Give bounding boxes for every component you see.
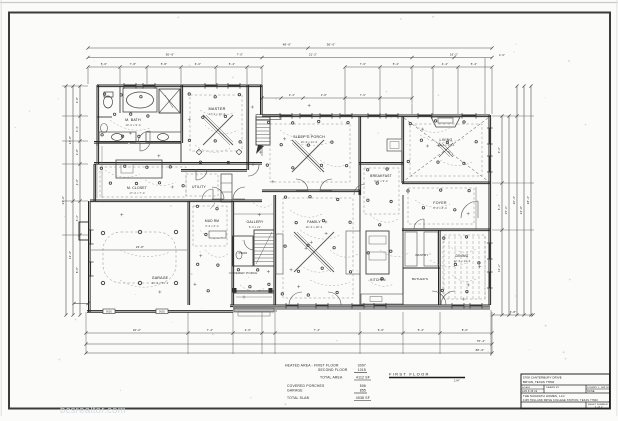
svg-text:48’-6”: 48’-6” [283, 43, 292, 47]
garage door labels [103, 309, 168, 314]
bottom dimension extension drops [86, 312, 492, 354]
svg-text:bcsrealtor.com: bcsrealtor.com [60, 405, 126, 416]
gallery arch openings [233, 214, 274, 236]
svg-text:FAMILY: FAMILY [307, 220, 321, 224]
exterior wall: right side [489, 115, 491, 305]
svg-text:30’-4”: 30’-4” [512, 196, 516, 204]
bottom dimension line tier 3 [84, 348, 493, 355]
svg-text:5’-4”: 5’-4” [229, 62, 236, 66]
svg-text:SLEEP’G PORCH: SLEEP’G PORCH [293, 135, 325, 139]
room label FAMILY [306, 220, 323, 229]
svg-text:10’-2”: 10’-2” [497, 264, 501, 272]
svg-text:PANTRY: PANTRY [415, 253, 428, 257]
ceiling trim dashed: garage loop [103, 232, 176, 283]
svg-text:3’-4”: 3’-4” [289, 93, 295, 97]
interior wall: master east [247, 85, 249, 170]
scan paper right edge [616, 0, 618, 416]
svg-text:KITCHEN: KITCHEN [370, 278, 386, 282]
room label FOYER [433, 201, 447, 210]
svg-text:GARAGE: GARAGE [287, 389, 303, 393]
svg-text:5’-8”: 5’-8” [161, 62, 168, 66]
interior wall: suite south / garage top [90, 200, 262, 202]
svg-text:6’-0 x 21’: 6’-0 x 21’ [249, 226, 261, 229]
exterior wall: bottom main [230, 305, 490, 307]
svg-text:16’-2”: 16’-2” [450, 53, 458, 57]
svg-text:1105 HOLLAND DRIVE COLLEGE STA: 1105 HOLLAND DRIVE COLLEGE STATION, TEXA… [523, 399, 598, 402]
svg-text:38’-0”: 38’-0” [327, 43, 336, 47]
svg-text:14’-8”: 14’-8” [68, 136, 72, 144]
svg-text:6’-0 x 6’-0: 6’-0 x 6’-0 [205, 225, 219, 228]
bcsrealtor.com watermark [60, 405, 126, 416]
room label GARAGE [152, 276, 169, 285]
svg-text:6’-8”: 6’-8” [510, 310, 517, 314]
closet shelving lines [97, 146, 102, 198]
svg-text:32’-8”: 32’-8” [519, 206, 523, 214]
svg-text:7’-0”: 7’-0” [360, 93, 366, 97]
master ceiling fan X [203, 115, 233, 145]
svg-text:TOTAL SLAB: TOTAL SLAB [287, 396, 310, 400]
room label GALLERY [247, 220, 265, 229]
svg-text:5’-4”: 5’-4” [418, 328, 425, 332]
room label KITCHEN [370, 278, 386, 282]
svg-text:13’-4”: 13’-4” [68, 251, 72, 259]
interior wall: dining west [439, 230, 441, 305]
room label DINING [454, 254, 471, 263]
interior wall: sleeping porch south / family top [262, 190, 360, 192]
room label SLEEPG PORCH [293, 135, 325, 144]
svg-text:7’-4”: 7’-4” [207, 328, 214, 332]
svg-text:DINING: DINING [455, 254, 468, 258]
living room ceiling diagonals [404, 118, 488, 181]
garage light dots [101, 230, 177, 284]
ceiling trim dashed: master [190, 95, 242, 151]
svg-text:4538 SF: 4538 SF [356, 396, 370, 400]
svg-text:BREAKFAST: BREAKFAST [370, 174, 392, 178]
svg-text:THE McGRATH HOMES, LLC: THE McGRATH HOMES, LLC [523, 394, 565, 398]
svg-text:PWDR: PWDR [239, 251, 248, 255]
svg-text:2’-8”: 2’-8” [75, 149, 79, 155]
butler counter [405, 232, 438, 266]
interior wall: garage east [188, 201, 190, 305]
svg-text:HEATED AREA - FIRST FLOOR: HEATED AREA - FIRST FLOOR [285, 364, 339, 368]
svg-text:‘COVERED’ PORCH: ‘COVERED’ PORCH [229, 271, 258, 275]
kitchen island [366, 231, 389, 274]
svg-text:BRYAN, TEXAS 77802: BRYAN, TEXAS 77802 [523, 380, 555, 384]
breakfast bar niche [387, 139, 402, 151]
bottom dimension line tier 2 [84, 339, 493, 346]
svg-text:3097: 3097 [358, 364, 366, 368]
room label BREAKFAST [370, 174, 392, 183]
svg-text:BUTLER’S: BUTLER’S [412, 277, 428, 281]
exterior wall: left master bath [97, 85, 99, 164]
room label COVERED PORCH [229, 271, 258, 275]
svg-text:1 of 2: 1 of 2 [595, 405, 603, 409]
svg-text:MASTER: MASTER [208, 107, 225, 111]
ceiling trim dashed: dining [444, 235, 485, 299]
svg-text:506: 506 [360, 384, 366, 388]
area schedule text block [285, 364, 371, 401]
title block [521, 374, 610, 409]
svg-text:8’-6”: 8’-6” [75, 267, 79, 273]
interior wall: closet/utility top [94, 163, 262, 165]
svg-text:7’-0”: 7’-0” [360, 62, 367, 66]
svg-text:TOTAL AREA: TOTAL AREA [320, 376, 343, 380]
svg-text:4’-2”: 4’-2” [75, 215, 79, 221]
left dimension lines [61, 84, 90, 316]
svg-text:M. CLOSET: M. CLOSET [127, 186, 147, 190]
ceiling trim dashed: sleeping porch [270, 124, 350, 182]
interior wall: powder room box [233, 236, 253, 266]
interior wall: family east / kitchen west [359, 190, 361, 305]
interior wall: master west [181, 85, 183, 162]
ceiling trim dashed: utility [186, 174, 218, 196]
room label M BATH [125, 118, 141, 127]
svg-text:6’-6”: 6’-6” [378, 328, 385, 332]
svg-text:7’-4”: 7’-4” [314, 328, 321, 332]
exterior wall: porch and living top [262, 115, 490, 117]
linen cabinet [221, 174, 232, 202]
svg-text:3’-8”: 3’-8” [321, 93, 327, 97]
svg-text:MUD RM: MUD RM [205, 219, 219, 223]
sleeping porch ceiling fan X [292, 140, 324, 172]
garage interior dimension line [91, 245, 187, 250]
top dimension extension drops [88, 68, 492, 114]
sheet title FIRST FLOOR [389, 372, 465, 383]
bathtub [123, 88, 157, 112]
svg-text:FIRST FLOOR: FIRST FLOOR [389, 372, 430, 377]
ceiling trim dashed: foyer [408, 188, 474, 224]
bath vanity with two sinks [99, 132, 181, 142]
living small X center [439, 143, 453, 157]
svg-text:FOYER: FOYER [433, 201, 447, 205]
main stair by gallery [254, 230, 274, 266]
interior wall: kitchen east / pantry west [402, 195, 404, 305]
svg-text:16’-0 x 19’-0: 16’-0 x 19’-0 [438, 143, 455, 147]
kitchen bottom run cabinets [361, 294, 403, 304]
svg-text:855: 855 [360, 389, 366, 393]
exterior wall slab band along bottom [233, 307, 490, 310]
svg-text:9050: 9050 [159, 311, 166, 314]
svg-text:31’-0”: 31’-0” [61, 196, 65, 205]
svg-text:SCALE: SCALE [522, 386, 531, 389]
porch steps below bottom wall [234, 308, 274, 316]
interior wall: pantry south [403, 267, 440, 269]
water closet room [97, 86, 120, 117]
interior wall: master bottom [181, 170, 247, 172]
dining ceiling slats [443, 236, 485, 300]
svg-text:3’-8”: 3’-8” [75, 97, 79, 103]
interior wall: bath south / closet top [94, 142, 181, 144]
recessed ceiling light dots [100, 93, 480, 296]
svg-text:1/4”: 1/4” [454, 379, 460, 383]
top dimension line tier 3 [86, 62, 493, 69]
interior wall: gallery east [274, 195, 276, 305]
exterior wall: master block top [97, 85, 262, 87]
top dimension line tier 2 [86, 53, 505, 115]
svg-text:4’-6”: 4’-6” [245, 328, 252, 332]
svg-text:1015: 1015 [358, 368, 366, 372]
room label UTILITY [192, 185, 207, 189]
svg-text:9’-0 x 9’-0: 9’-0 x 9’-0 [374, 179, 388, 183]
svg-text:75’-4”: 75’-4” [477, 339, 486, 343]
chimney bump on garage left wall [79, 222, 89, 240]
interior wall: foyer south / dining top [402, 229, 490, 231]
room label MASTER [208, 107, 225, 116]
room label BUTLERS [412, 277, 428, 281]
svg-text:5’-4”: 5’-4” [471, 62, 478, 66]
porch wall window frame detail [256, 115, 281, 120]
small fixture crosses [120, 104, 481, 301]
svg-text:16’-0 x 14’-0: 16’-0 x 14’-0 [301, 140, 318, 144]
room label LIVING [438, 138, 455, 147]
svg-text:13’-0 x 9’-0: 13’-0 x 9’-0 [125, 123, 141, 127]
interior wall: mudroom east / porch west [232, 201, 234, 305]
interior wall: living south / foyer top [402, 182, 490, 184]
svg-text:36’-6”: 36’-6” [166, 53, 175, 57]
svg-text:23’-8”: 23’-8” [136, 245, 144, 249]
svg-text:M. BATH: M. BATH [125, 118, 141, 122]
svg-text:9050: 9050 [106, 311, 113, 314]
svg-text:4’-0”: 4’-0” [499, 53, 505, 57]
scan paper top edge [0, 2, 618, 4]
svg-text:6’-4”: 6’-4” [497, 204, 501, 210]
room label M CLOSET [127, 186, 147, 195]
svg-text:DRAWN BY: DRAWN BY [546, 386, 560, 389]
door swing arcs [138, 131, 478, 305]
fireplace [431, 117, 460, 127]
top dimension line tier 1 [86, 43, 493, 50]
mud room bench [209, 231, 226, 238]
master closet island [116, 160, 162, 178]
svg-text:COVERED PORCHES: COVERED PORCHES [287, 384, 325, 388]
svg-text:4’-4”: 4’-4” [442, 62, 449, 66]
shower with X [159, 89, 180, 113]
svg-text:17’-0 x 16’-0: 17’-0 x 16’-0 [209, 112, 226, 116]
sconce diamonds [196, 149, 242, 155]
interior wall: living west [402, 116, 404, 183]
svg-text:NONE: NONE [587, 390, 595, 393]
svg-text:8’-0 x 8’-0: 8’-0 x 8’-0 [433, 206, 447, 210]
svg-text:40’-0”: 40’-0” [133, 328, 141, 332]
windows on exterior walls [88, 83, 493, 309]
svg-text:4’-6”: 4’-6” [75, 179, 79, 185]
svg-text:21’-2”: 21’-2” [309, 53, 317, 57]
kitchen counters [346, 231, 360, 305]
covered porch front edge and steps [233, 288, 278, 311]
svg-text:GALLERY: GALLERY [247, 220, 265, 224]
interior wall: breakfast top [359, 163, 403, 165]
svg-text:JOHNNY L. SMITH: JOHNNY L. SMITH [587, 387, 609, 389]
stair run beside master [256, 117, 270, 156]
ceiling trim dashed: living [410, 124, 482, 176]
ceiling trim dashed: mud [193, 206, 227, 246]
exterior wall: left closet step [94, 164, 96, 201]
svg-text:23’-4 x 33’-0: 23’-4 x 33’-0 [152, 281, 169, 285]
second toilet small [101, 124, 108, 133]
svg-text:UTILITY: UTILITY [192, 185, 207, 189]
family ceiling fan X [294, 232, 334, 272]
svg-text:JAN 8 30 02: JAN 8 30 02 [522, 390, 538, 393]
svg-text:3’-4”: 3’-4” [75, 126, 79, 132]
bottom dimension line tier 1 [84, 328, 493, 335]
exterior wall: bottom garage [87, 311, 233, 313]
room label PWDR [239, 251, 248, 255]
svg-text:5’-6”: 5’-6” [101, 62, 108, 66]
exterior wall: left garage [89, 201, 91, 312]
family built-in strip [276, 234, 283, 274]
dashed wiring curves [105, 110, 478, 291]
svg-text:LIVING: LIVING [440, 138, 453, 142]
svg-text:SECOND FLOOR: SECOND FLOOR [318, 368, 348, 372]
scan paper left edge [0, 0, 2, 416]
svg-text:16’-0 x 18’-0: 16’-0 x 18’-0 [306, 225, 323, 229]
svg-text:7’-0”: 7’-0” [237, 53, 244, 57]
svg-text:GARAGE: GARAGE [152, 276, 169, 280]
toilet [104, 92, 114, 108]
svg-text:38’-4”: 38’-4” [526, 196, 530, 204]
svg-text:12’-0 x 13’-0: 12’-0 x 13’-0 [454, 259, 471, 263]
right dimension lines [491, 84, 535, 356]
svg-text:8’-0”: 8’-0” [462, 328, 469, 332]
svg-text:86’-6”: 86’-6” [476, 348, 485, 352]
svg-text:17’-0 x 7’-0: 17’-0 x 7’-0 [129, 191, 145, 195]
ceiling trim dashed: family [283, 198, 353, 298]
interior wall: sleeping porch east / breakfast west [359, 116, 361, 195]
svg-text:5’-4”: 5’-4” [393, 62, 400, 66]
svg-text:7’-8”: 7’-8” [130, 62, 137, 66]
ceiling trim dashed: closet [100, 167, 186, 197]
porch top dimension sub-tier [260, 93, 413, 100]
ceiling trim dashed: breakfast [364, 168, 399, 214]
svg-text:4112 SF: 4112 SF [356, 376, 370, 380]
exterior wall: step at sleeping porch [261, 85, 263, 115]
svg-text:9’-0”: 9’-0” [497, 147, 501, 153]
svg-text:6’-0”: 6’-0” [195, 62, 202, 66]
svg-text:25’-6”: 25’-6” [504, 206, 508, 214]
room label MUD RM [205, 219, 219, 228]
room label PANTRY [415, 253, 428, 257]
